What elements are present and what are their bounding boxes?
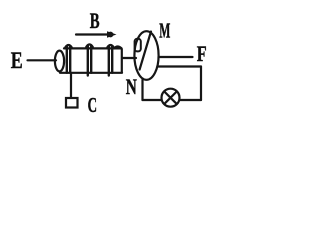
wire meter to F xyxy=(159,56,193,58)
wire meter right to lamp loop (top rail) xyxy=(158,65,202,67)
coil L1 tube bottom edge xyxy=(60,72,122,74)
svg-text:M: M xyxy=(159,19,170,42)
svg-text:F: F xyxy=(197,43,207,67)
coil L1 left end cap xyxy=(55,51,64,72)
wire right vertical xyxy=(200,67,202,101)
meter zero mark 0 xyxy=(135,39,141,52)
coil L1 right top bump xyxy=(114,46,121,48)
lamp DS1 xyxy=(162,89,180,107)
switch C box xyxy=(66,98,78,108)
meter G body (ellipse) xyxy=(134,31,158,80)
wire bottom rail right xyxy=(180,99,201,101)
coil L1 winding 1 xyxy=(65,45,71,73)
wire bottom rail left xyxy=(143,99,162,101)
svg-text:E: E xyxy=(11,47,23,74)
arrow B xyxy=(76,33,107,35)
wire coil to switch xyxy=(70,73,72,98)
svg-text:C: C xyxy=(88,93,97,117)
coil L1 tube top edge xyxy=(64,47,122,49)
wire coil to meter xyxy=(122,57,136,59)
coil L1 winding 2 xyxy=(86,44,92,75)
coil L1 winding 3 xyxy=(107,45,113,75)
meter needle xyxy=(140,32,151,70)
wire left vertical to meter bottom xyxy=(141,80,143,101)
svg-text:B: B xyxy=(90,9,100,34)
wire E to coil xyxy=(28,59,57,61)
coil L1 right end xyxy=(121,49,123,73)
svg-text:N: N xyxy=(126,76,137,100)
